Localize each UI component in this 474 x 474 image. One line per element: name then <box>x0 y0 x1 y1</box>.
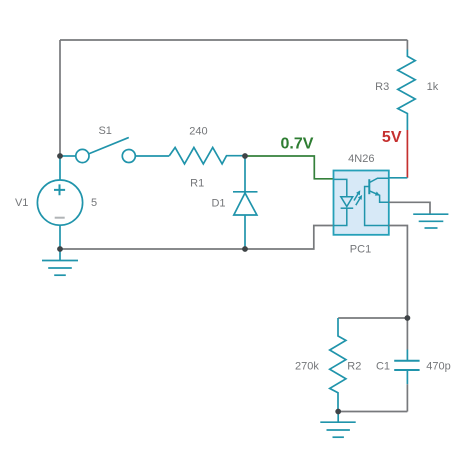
optocoupler collector path <box>369 178 389 182</box>
wire collector stub to red net <box>389 177 408 179</box>
svg-text:V1: V1 <box>15 197 28 209</box>
svg-text:S1: S1 <box>98 125 111 137</box>
node A junction dot (switch / V1 / top rail) <box>57 153 63 159</box>
switch S1 <box>76 138 136 163</box>
svg-text:R1: R1 <box>190 177 204 189</box>
svg-text:R3: R3 <box>375 81 389 93</box>
wire base net down to R2/C1 node <box>389 226 408 319</box>
wire top rail from V1 column to R3 column <box>60 39 407 41</box>
ground GND3 under R2 <box>320 412 355 438</box>
node C junction dot (D1 bottom / ground rail) <box>242 246 248 252</box>
optocoupler emitter path with arrow <box>369 191 389 203</box>
diode D1 <box>233 156 258 249</box>
wire switch S1 right terminal to R1 <box>135 155 169 157</box>
optocoupler phototransistor base bar <box>368 179 370 194</box>
wire node A to switch S1 left terminal <box>60 155 76 157</box>
resistor R1 <box>169 148 245 164</box>
svg-text:5V: 5V <box>382 129 402 146</box>
wire V1 minus to node D <box>59 225 61 249</box>
node D junction dot (V1 minus / ground / bottom rail) <box>57 246 63 252</box>
node F junction dot (R2 bottom / C1 bottom / ground) <box>335 409 341 415</box>
svg-text:5: 5 <box>91 197 97 209</box>
node E junction dot (base net / R2 / C1) <box>405 315 411 321</box>
capacitor C1 <box>394 318 419 412</box>
wire top rail corner to R3 top <box>406 40 408 50</box>
voltage source V1 <box>37 180 82 225</box>
svg-text:C1: C1 <box>376 360 390 372</box>
optocoupler internal LED <box>334 197 354 226</box>
svg-text:D1: D1 <box>211 197 225 209</box>
ground GND2 right of optocoupler <box>413 214 448 228</box>
wire red net 5V from R3 bottom to optocoupler collector <box>406 130 408 178</box>
resistor R2 <box>330 318 346 412</box>
svg-text:PC1: PC1 <box>350 243 371 255</box>
ground GND1 under V1 <box>42 249 78 275</box>
optocoupler base lead down <box>365 187 389 226</box>
resistor R3 <box>398 50 415 131</box>
wire left rail down to node A <box>59 40 61 156</box>
wire node E to R2 top <box>338 317 407 319</box>
wire node F to C1 bottom <box>338 411 407 413</box>
wire node A to V1 plus <box>59 156 61 180</box>
wire bottom rail from V1 minus to optocoupler LED cathode <box>60 226 334 250</box>
optocoupler LED anode lead <box>334 179 347 196</box>
svg-text:470p: 470p <box>426 360 450 372</box>
svg-text:R2: R2 <box>347 360 361 372</box>
svg-text:270k: 270k <box>295 360 319 372</box>
svg-text:240: 240 <box>189 125 207 137</box>
svg-text:0.7V: 0.7V <box>281 135 314 152</box>
svg-text:1k: 1k <box>427 81 439 93</box>
optocoupler light arrows <box>354 190 362 205</box>
node B junction dot (R1 / D1 / green net) <box>242 153 248 159</box>
svg-text:4N26: 4N26 <box>348 153 374 165</box>
wire emitter to right ground <box>389 202 430 214</box>
optocoupler U1 body (4N26) <box>334 171 389 235</box>
wire green net 0.7V from node B to optocoupler LED anode <box>245 156 334 179</box>
